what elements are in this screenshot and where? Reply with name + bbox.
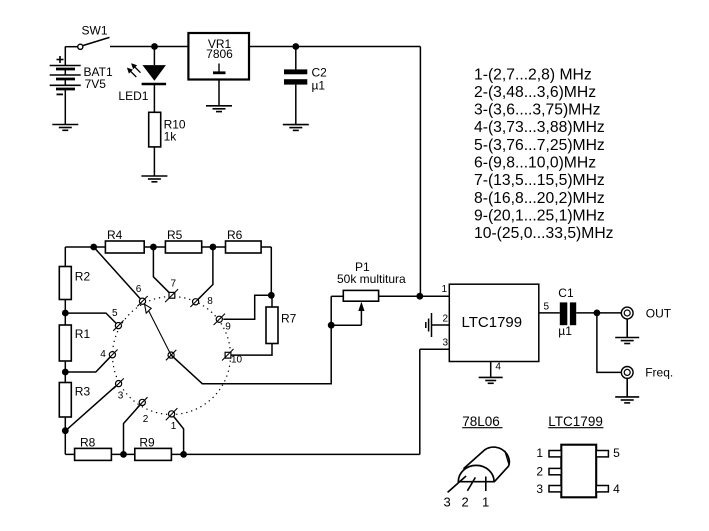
rotary contact 3 xyxy=(113,378,123,388)
rotary contact 6 xyxy=(137,296,147,306)
svg-text:5: 5 xyxy=(112,308,118,319)
svg-text:C2: C2 xyxy=(312,66,328,80)
svg-text:µ1: µ1 xyxy=(312,79,326,93)
resistor R8 xyxy=(75,448,112,460)
wire top resistor row xyxy=(65,246,271,248)
svg-text:3: 3 xyxy=(442,338,448,349)
wire rotary common to P1 xyxy=(171,296,331,383)
svg-text:10-(25,0...33,5)MHz: 10-(25,0...33,5)MHz xyxy=(474,225,614,242)
resistor R4 xyxy=(105,241,144,253)
rotary contact 4 xyxy=(107,350,117,360)
node junction V+ LED xyxy=(151,43,158,50)
svg-text:5-(3,76...7,25)MHz: 5-(3,76...7,25)MHz xyxy=(474,137,605,154)
svg-text:7-(13,5...15,5)MHz: 7-(13,5...15,5)MHz xyxy=(474,172,605,189)
node pin1 junction xyxy=(416,293,423,300)
node R4 left junction xyxy=(90,244,97,251)
wire C1 to OUT xyxy=(576,312,623,314)
svg-text:78L06: 78L06 xyxy=(462,414,500,429)
node R3-R8 junction xyxy=(62,427,69,434)
node R1-R3 junction xyxy=(62,369,69,376)
svg-text:LTC1799: LTC1799 xyxy=(548,414,603,429)
svg-text:1: 1 xyxy=(482,494,489,509)
rotary contact 2 xyxy=(137,397,147,407)
node P1 junction xyxy=(328,322,335,329)
svg-text:R7: R7 xyxy=(281,312,297,326)
connector OUT xyxy=(621,307,633,319)
svg-text:5: 5 xyxy=(613,446,620,460)
svg-text:R1: R1 xyxy=(75,327,91,341)
package SOT23-5 body xyxy=(561,445,596,498)
pin 3 wire xyxy=(420,348,450,350)
resistor R1 xyxy=(59,325,71,361)
svg-text:2: 2 xyxy=(143,414,149,425)
wire contact5 to left rail xyxy=(65,313,118,326)
svg-text:R2: R2 xyxy=(75,270,91,284)
svg-text:4: 4 xyxy=(100,349,106,360)
svg-text:2-(3,48...3,6)MHz: 2-(3,48...3,6)MHz xyxy=(474,84,596,101)
rotary contact 1 xyxy=(166,408,178,420)
rotary contact 5 xyxy=(113,320,123,330)
pin 5 wire xyxy=(539,312,560,314)
wire contact3 to left rail xyxy=(65,384,118,431)
svg-text:1: 1 xyxy=(536,446,543,460)
IC LTC1799 xyxy=(449,284,539,361)
wire junction to Freq xyxy=(597,313,621,373)
svg-text:C1: C1 xyxy=(558,286,574,300)
svg-text:6: 6 xyxy=(136,284,142,295)
rotary contact 8 xyxy=(190,297,200,307)
pin 4 stub and ground xyxy=(479,362,503,384)
svg-text:R4: R4 xyxy=(107,228,123,242)
svg-text:1: 1 xyxy=(171,421,177,432)
resistor R10 xyxy=(149,112,161,147)
rotary contact 7 xyxy=(165,289,178,302)
svg-text:2: 2 xyxy=(462,494,469,509)
potentiometer P1 xyxy=(343,290,378,301)
node R6-R7 junction xyxy=(268,292,275,299)
rotary switch dotted circle xyxy=(113,297,231,415)
svg-text:8: 8 xyxy=(207,296,213,307)
svg-text:10: 10 xyxy=(231,355,243,366)
ground R10 xyxy=(141,176,167,182)
svg-text:3-(3,6....3,75)MHz: 3-(3,6....3,75)MHz xyxy=(474,102,601,119)
regulator VR1 7806 xyxy=(188,33,249,80)
svg-text:OUT: OUT xyxy=(646,306,672,320)
capacitor C2 xyxy=(284,47,307,125)
ground Freq xyxy=(615,378,639,403)
rotary contact 10 xyxy=(222,349,234,361)
frequency range list xyxy=(474,66,614,242)
wire bottom rail xyxy=(65,453,420,455)
switch SW1 xyxy=(65,37,109,49)
node R5-R6 junction xyxy=(210,244,217,251)
rotary contact 9 xyxy=(214,314,225,325)
svg-text:2: 2 xyxy=(536,465,543,479)
svg-text:4: 4 xyxy=(495,362,501,373)
wire contact9 to R7 junction xyxy=(223,295,271,319)
svg-text:8-(16,8...20,2)MHz: 8-(16,8...20,2)MHz xyxy=(474,190,605,207)
package 78L06 TO-92 xyxy=(458,447,509,482)
ground VR1 xyxy=(206,106,232,112)
pin 2 wire and ground xyxy=(426,313,450,337)
ground C2 xyxy=(283,125,309,131)
svg-text:R8: R8 xyxy=(80,436,96,450)
resistor R6 xyxy=(226,241,262,253)
node R2-R1 junction xyxy=(62,310,69,317)
resistor R3 xyxy=(59,383,71,418)
svg-text:SW1: SW1 xyxy=(82,24,108,38)
wire vertical V+ down to pin1 junction xyxy=(419,47,421,297)
P1 wiper xyxy=(331,302,364,326)
svg-text:3: 3 xyxy=(444,494,451,509)
svg-text:50k multitura: 50k multitura xyxy=(337,272,406,286)
LED LED1 xyxy=(127,47,166,113)
svg-text:3: 3 xyxy=(536,482,543,496)
ground battery xyxy=(52,125,78,131)
wire top rail xyxy=(110,46,188,48)
wire contact6 to R4 node xyxy=(94,247,143,301)
svg-text:2: 2 xyxy=(442,314,448,325)
svg-text:9-(20,1...25,1)MHz: 9-(20,1...25,1)MHz xyxy=(474,208,605,225)
resistor R2 xyxy=(59,267,71,300)
resistor R7 xyxy=(266,307,278,344)
wire contact2 to bottom rail xyxy=(124,402,143,454)
svg-text:4: 4 xyxy=(613,482,620,496)
node R4-R5 junction xyxy=(150,244,157,251)
wire VR1 to ground xyxy=(218,80,220,106)
svg-text:7: 7 xyxy=(171,279,177,290)
battery BAT1 xyxy=(50,47,81,125)
wire left rail xyxy=(64,247,66,454)
svg-text:1-(2,7...2,8) MHz: 1-(2,7...2,8) MHz xyxy=(474,66,592,83)
connector Freq xyxy=(621,367,633,379)
rotary wiper arrow xyxy=(145,304,172,355)
svg-text:7V5: 7V5 xyxy=(85,77,107,91)
svg-text:LTC1799: LTC1799 xyxy=(462,314,523,331)
resistor R5 xyxy=(165,241,201,253)
node R9 right junction xyxy=(180,451,187,458)
wire contact10 to R7 bottom xyxy=(231,344,272,356)
svg-text:R6: R6 xyxy=(227,228,243,242)
svg-text:4-(3,73...3,88)MHz: 4-(3,73...3,88)MHz xyxy=(474,119,605,136)
wire contact8 to R6 node xyxy=(196,247,213,302)
svg-text:5: 5 xyxy=(544,302,550,313)
svg-text:R5: R5 xyxy=(167,228,183,242)
svg-text:6-(9,8...10,0)MHz: 6-(9,8...10,0)MHz xyxy=(474,155,596,172)
svg-text:R9: R9 xyxy=(139,436,155,450)
wire R10 to ground xyxy=(153,147,155,176)
svg-text:LED1: LED1 xyxy=(118,89,148,103)
svg-text:9: 9 xyxy=(225,322,231,333)
svg-text:3: 3 xyxy=(118,391,124,402)
package pin stubs xyxy=(549,451,608,492)
ground OUT xyxy=(615,319,639,344)
wire contact4 to left rail xyxy=(65,355,112,372)
svg-text:7806: 7806 xyxy=(206,47,233,61)
wire bottom rail up to pin3 xyxy=(419,349,421,454)
node junction C2 xyxy=(292,43,299,50)
wire contact1 to bottom rail xyxy=(172,414,184,455)
wire VR1 output to C2 to corner xyxy=(249,46,420,48)
svg-text:Freq.: Freq. xyxy=(645,366,673,380)
svg-text:1k: 1k xyxy=(164,130,178,144)
wire contact7 to R5 node xyxy=(153,247,172,295)
capacitor C1 xyxy=(560,302,576,325)
wire P1 to pin1 xyxy=(379,295,450,297)
svg-text:R3: R3 xyxy=(75,385,91,399)
node junction OUT/Freq xyxy=(594,310,601,317)
wire R7 top xyxy=(271,295,273,307)
resistor R9 xyxy=(135,448,172,460)
node R8-R9 junction xyxy=(120,451,127,458)
svg-text:1: 1 xyxy=(441,284,447,295)
wire R6 down to R7 junction xyxy=(270,247,272,295)
svg-text:µ1: µ1 xyxy=(558,324,572,338)
rotary center contact xyxy=(166,350,176,360)
package 78L06 leads xyxy=(448,476,486,492)
